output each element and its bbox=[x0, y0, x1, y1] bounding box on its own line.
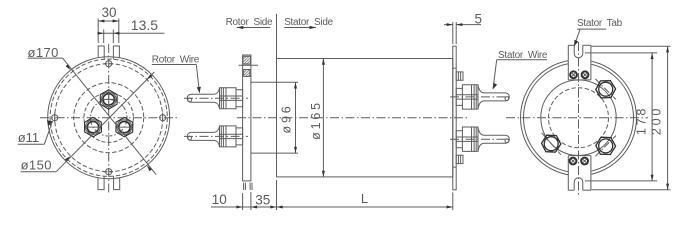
hole S bbox=[104, 169, 114, 175]
top tab bbox=[568, 45, 591, 80]
svg-text:10: 10 bbox=[212, 192, 227, 207]
bolt-circle tangent through NE nut bbox=[595, 79, 616, 100]
svg-text:ø170: ø170 bbox=[28, 45, 59, 60]
terminal screw top (side) bbox=[456, 72, 463, 80]
hex nut top bbox=[100, 90, 117, 109]
label D150 leader (diameter line at 45deg) bbox=[21, 72, 155, 172]
dim 30 bbox=[98, 19, 119, 44]
svg-text:L: L bbox=[361, 191, 368, 206]
svg-text:178: 178 bbox=[635, 106, 649, 135]
dim 5 (tab thickness) bbox=[444, 22, 481, 44]
bottom dims 10 / 35 / L bbox=[211, 180, 453, 210]
flange top hatch bbox=[243, 56, 251, 64]
label D11 leader bbox=[18, 120, 53, 144]
svg-text:ø96: ø96 bbox=[280, 104, 294, 134]
inner dashed circle bbox=[84, 93, 133, 142]
bottom tab bbox=[568, 156, 591, 191]
hex nut bottom-right bbox=[116, 117, 133, 136]
inner rim circle bbox=[524, 63, 634, 173]
main axis bbox=[237, 117, 467, 119]
bolt-circle tangent through SE nut bbox=[595, 136, 616, 157]
hex nut SW bbox=[542, 135, 561, 152]
svg-text:35: 35 bbox=[255, 193, 270, 208]
top tab screws bbox=[570, 71, 588, 78]
outer circle D170 bbox=[48, 57, 170, 179]
outer circle bbox=[521, 60, 637, 176]
stator tab leader bbox=[574, 29, 606, 46]
flange bottom slots bbox=[244, 183, 252, 190]
svg-text:ø150: ø150 bbox=[21, 158, 52, 173]
terminal screw bottom (side) bbox=[456, 155, 463, 163]
centerline horizontal bbox=[40, 117, 178, 119]
dim D96 bbox=[277, 82, 299, 153]
stator connector lower bbox=[450, 127, 512, 151]
nut pitch circle bbox=[90, 99, 127, 136]
svg-text:Stator Wire: Stator Wire bbox=[498, 50, 548, 61]
rotor cylinder D96 bbox=[251, 82, 277, 153]
dim D165 bbox=[322, 59, 325, 177]
svg-text:Rotor Side: Rotor Side bbox=[226, 17, 273, 28]
rotor side arrow bbox=[237, 26, 270, 29]
top tab slot 2 bbox=[113, 46, 119, 59]
svg-text:200: 200 bbox=[650, 106, 664, 135]
centerline vertical bbox=[108, 44, 110, 194]
svg-text:Stator Tab: Stator Tab bbox=[577, 18, 623, 29]
rotor wire leader bbox=[152, 65, 201, 93]
svg-text:13.5: 13.5 bbox=[131, 17, 158, 33]
hex nut SE bbox=[596, 137, 616, 154]
stator tab plate bbox=[453, 46, 456, 190]
tab masks bbox=[568, 45, 591, 79]
dim 13.5 bbox=[98, 30, 165, 44]
bottom tab slot 1 bbox=[98, 176, 104, 190]
centerline horizontal bbox=[506, 117, 648, 119]
stator wire leader bbox=[493, 60, 547, 89]
top tab slot 1 bbox=[98, 46, 104, 59]
hex nut NE bbox=[596, 81, 616, 98]
stator side arrow bbox=[284, 26, 316, 29]
bottom tab screws bbox=[570, 158, 588, 165]
hole W bbox=[52, 113, 58, 123]
svg-text:30: 30 bbox=[102, 5, 117, 20]
inner dashed circle D96 bbox=[74, 83, 144, 153]
centerline vertical bbox=[578, 42, 580, 195]
bolt-circle tangent through SW nut bbox=[542, 133, 561, 155]
svg-text:Stator Side: Stator Side bbox=[284, 17, 333, 28]
label D170 leader (diameter line through center at 50deg) bbox=[28, 58, 157, 175]
bottom tab slot 2 bbox=[114, 176, 120, 190]
svg-text:ø11: ø11 bbox=[18, 130, 39, 145]
svg-text:ø165: ø165 bbox=[309, 100, 323, 140]
rotor connector upper bbox=[184, 88, 248, 109]
hole E bbox=[160, 113, 166, 123]
rotor connector lower bbox=[184, 126, 248, 147]
hex nut bottom-left bbox=[85, 117, 102, 136]
rotor side / stator side separator bbox=[276, 14, 278, 59]
dashed circle bbox=[549, 88, 609, 148]
boss circle bbox=[541, 80, 616, 155]
hole N bbox=[104, 61, 114, 67]
stator cylinder D165 bbox=[277, 59, 453, 177]
stator connector upper bbox=[450, 85, 512, 109]
bolt circle D150 bbox=[55, 64, 163, 172]
rotor flange plate bbox=[243, 55, 251, 181]
svg-text:Rotor Wire: Rotor Wire bbox=[152, 54, 200, 65]
hidden circle D165 bbox=[50, 59, 167, 176]
dim 178 / 200 bbox=[585, 46, 671, 190]
svg-text:5: 5 bbox=[475, 12, 483, 27]
